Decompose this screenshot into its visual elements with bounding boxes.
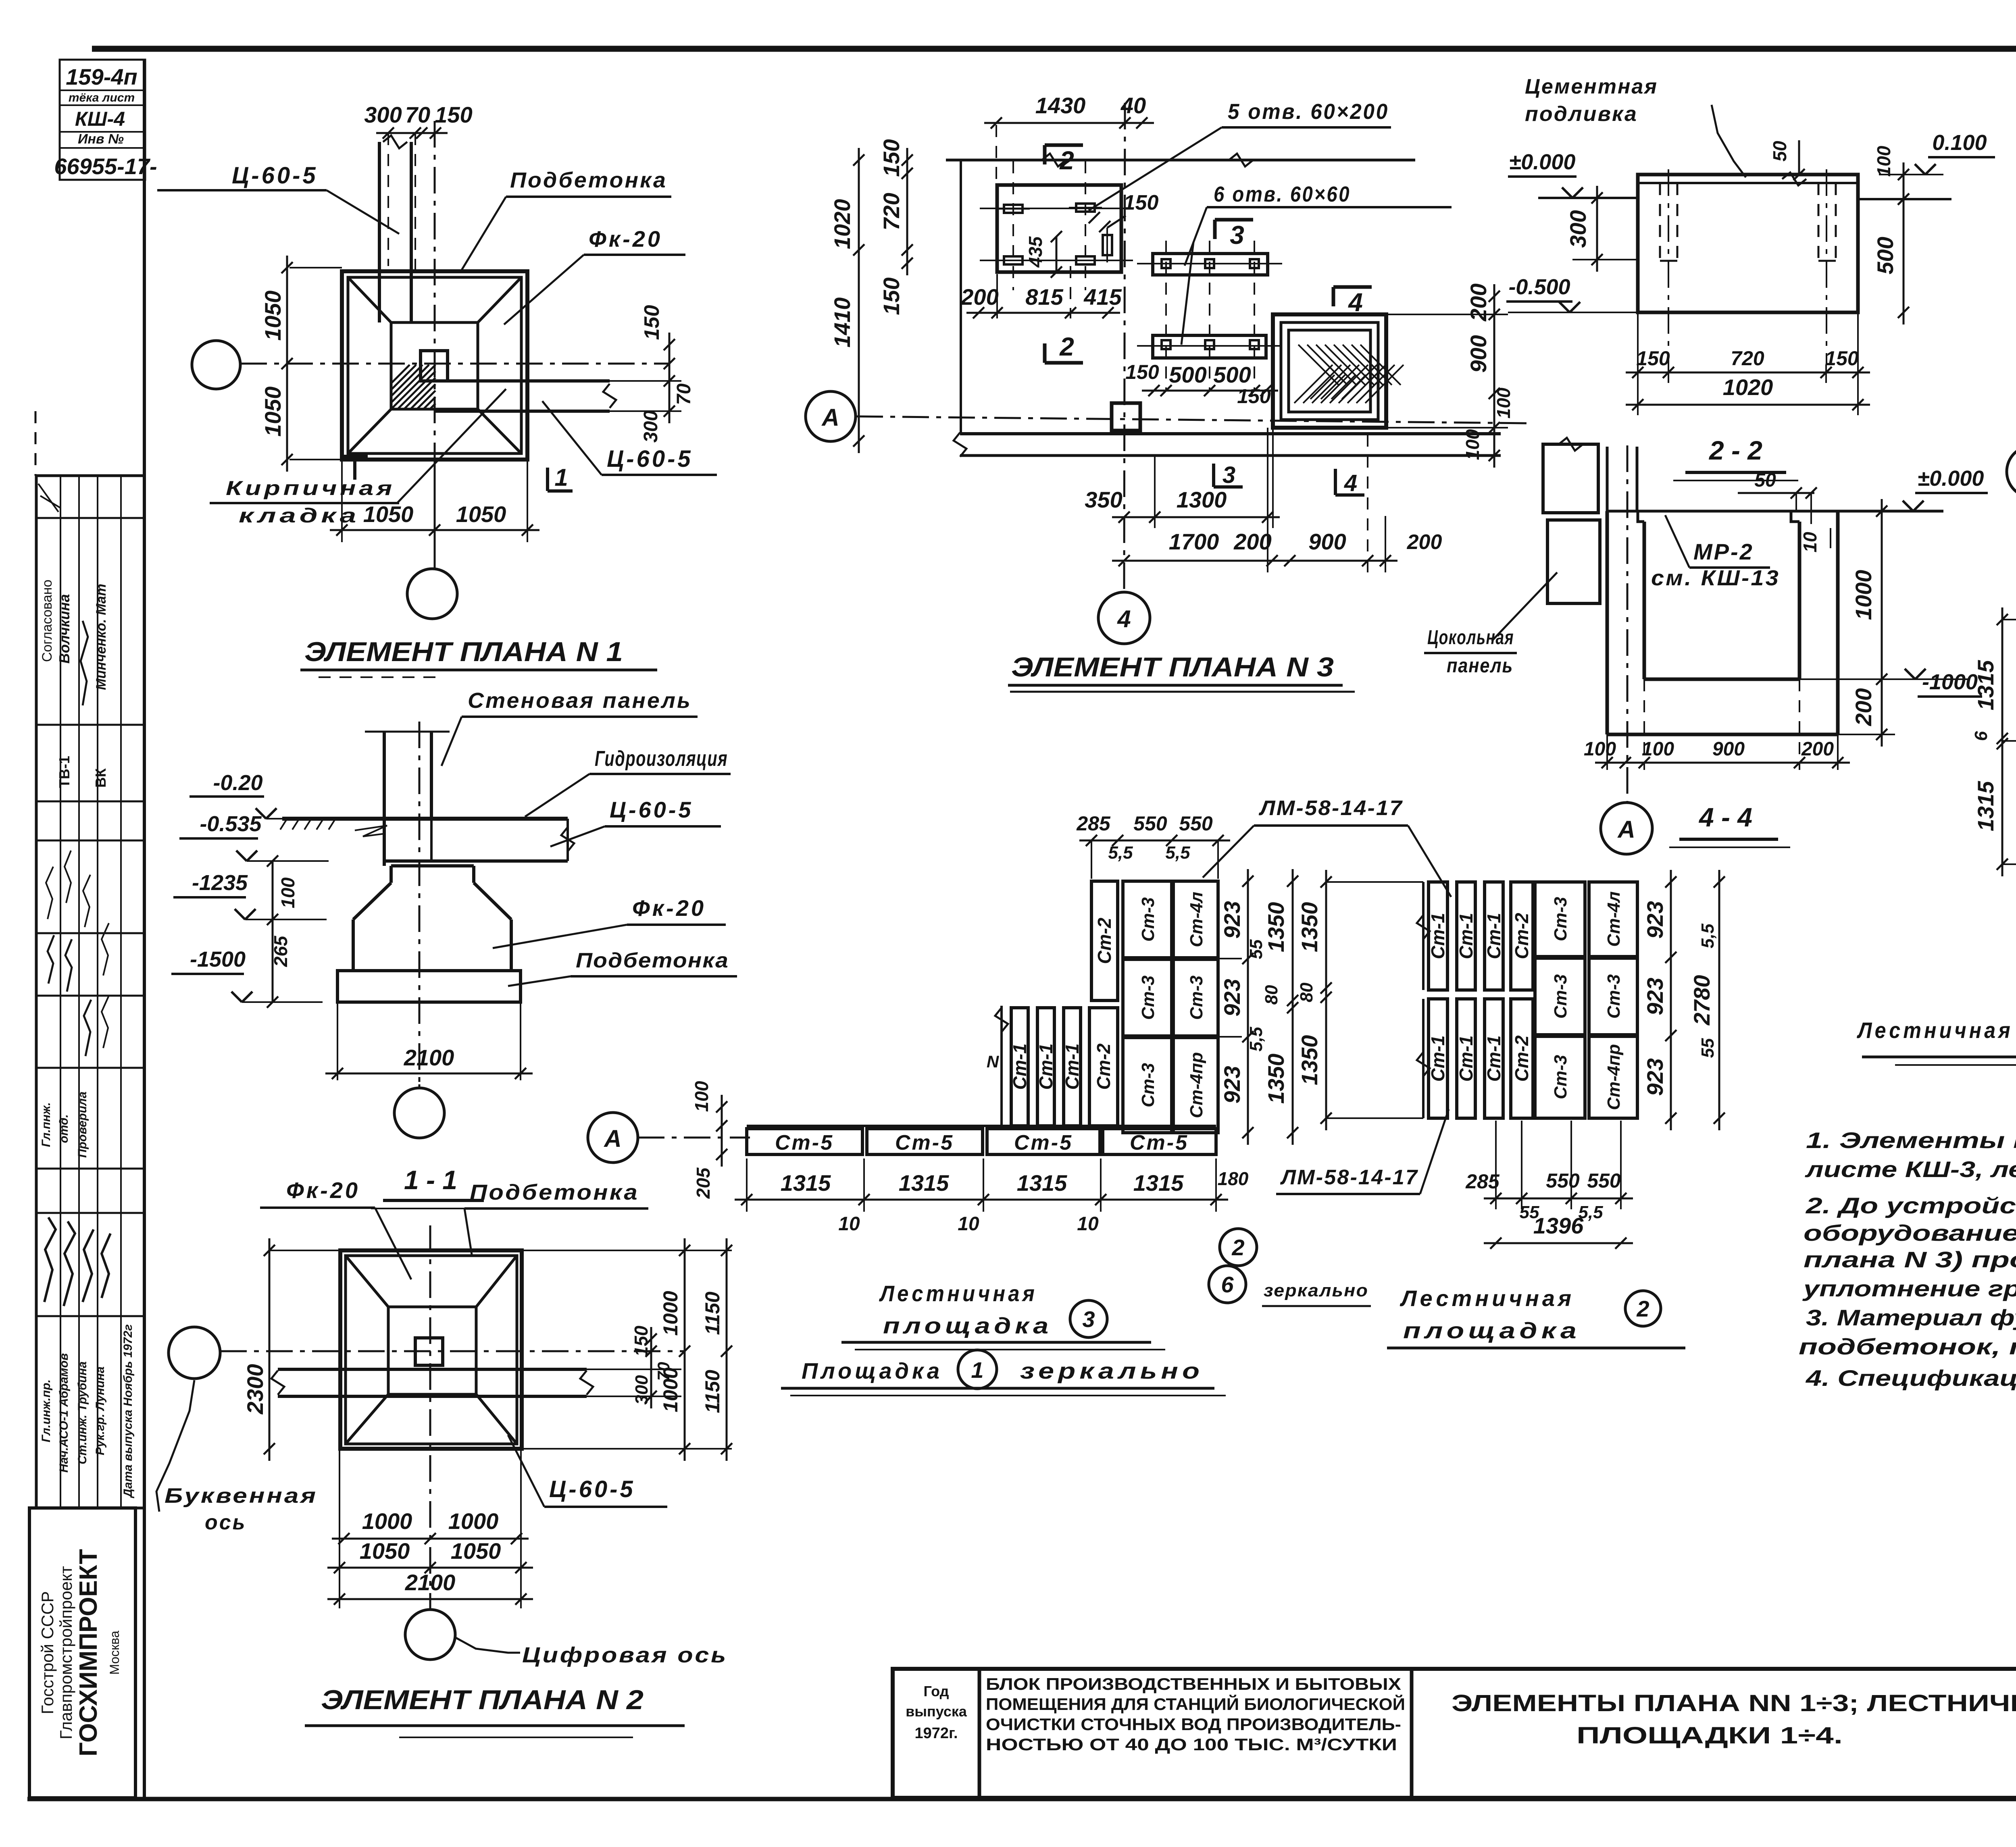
svg-text:площадка: площадка: [883, 1313, 1052, 1338]
plan element 3 wall top edge line: [946, 159, 1415, 162]
svg-text:Ст-5: Ст-5: [1130, 1131, 1189, 1154]
plan element 2 bottom dims 1000 1000: [332, 1538, 529, 1540]
svg-text:900: 900: [1712, 738, 1745, 760]
plan element 2 horizontal axis line: [220, 1350, 685, 1352]
section 4-4 wall panel lower (цокольная панель): [1547, 520, 1600, 603]
lower bar plate bolts: [1162, 340, 1170, 349]
svg-text:2780: 2780: [1689, 975, 1714, 1026]
svg-text:±0.000: ±0.000: [1509, 150, 1576, 174]
plan element 2 bottom dim 2100: [327, 1598, 533, 1600]
section 2-2 left slot: [1659, 183, 1661, 261]
inventory stamp box: [60, 60, 145, 180]
svg-text:100: 100: [1642, 738, 1674, 760]
svg-text:205: 205: [693, 1167, 714, 1199]
svg-text:N: N: [987, 1052, 1000, 1071]
section mark 2 top: [1045, 144, 1083, 147]
svg-text:-0.535: -0.535: [200, 812, 262, 836]
section mark 1 right: [546, 468, 549, 491]
svg-text:Подбетонка: Подбетонка: [510, 168, 667, 192]
svg-text:Буквенная: Буквенная: [165, 1484, 318, 1508]
plan element 3 lower wall strip: [960, 432, 1501, 435]
svg-text:1000: 1000: [659, 1291, 682, 1335]
svg-text:Минченко. Мат: Минченко. Мат: [94, 584, 109, 690]
svg-text:Ст-5: Ст-5: [1014, 1131, 1073, 1154]
svg-text:1 - 1: 1 - 1: [404, 1165, 457, 1195]
svg-text:1972г.: 1972г.: [914, 1725, 958, 1742]
plan element 2 right dims 1150 1000 150 70 300: [522, 1250, 732, 1251]
landing 4 left dim chain 1315 6 1315: [2002, 619, 2016, 620]
plan element 2 inner square: [346, 1256, 517, 1444]
svg-text:1350: 1350: [1263, 1054, 1289, 1104]
plan element 3 small square on axis: [1112, 403, 1140, 431]
svg-text:150: 150: [879, 139, 904, 177]
svg-text:4 - 4: 4 - 4: [1698, 802, 1752, 832]
plan element 3 left wall vertical: [960, 160, 962, 434]
svg-text:50: 50: [1754, 470, 1776, 491]
svg-text:159-4п: 159-4п: [66, 64, 137, 89]
landing 3 left dims 100 205: [722, 1107, 747, 1107]
section 1-1 podbetonka slab: [337, 971, 521, 1002]
svg-text:ЭЛЕМЕНТ ПЛАНА N 2: ЭЛЕМЕНТ ПЛАНА N 2: [321, 1685, 644, 1715]
svg-text:4. Спецификацию на проступ: 4. Спецификацию на проступи см. лист КШ-…: [1806, 1365, 2016, 1391]
svg-text:Согласовано: Согласовано: [40, 580, 55, 662]
svg-text:1315: 1315: [1133, 1170, 1184, 1196]
svg-text:1050: 1050: [451, 1538, 501, 1564]
svg-text:ГОСХИМПРОЕКТ: ГОСХИМПРОЕКТ: [75, 1549, 102, 1757]
svg-text:Госстрой СССР: Госстрой СССР: [38, 1591, 57, 1714]
publisher box ГОСХИМПРОЕКТ: [29, 1508, 135, 1798]
plan element 2 pyramid diagonals: [346, 1256, 388, 1307]
svg-text:зеркально: зеркально: [1264, 1281, 1368, 1300]
svg-text:1050: 1050: [260, 387, 285, 437]
section 4-4 pit walls: [1606, 511, 1609, 734]
axis A circle left of plan 1: [192, 341, 240, 389]
svg-text:БЛОК ПРОИЗВОДСТВЕННЫХ И БЫТ: БЛОК ПРОИЗВОДСТВЕННЫХ И БЫТОВЫХ: [986, 1674, 1401, 1693]
svg-text:плана N 3) произвести: плана N 3) произвести послойное: [1804, 1247, 2016, 1272]
svg-text:1: 1: [971, 1357, 983, 1383]
svg-text:1: 1: [554, 464, 568, 491]
svg-text:Ст-4пр: Ст-4пр: [1604, 1044, 1624, 1110]
left margin signature table: [35, 411, 37, 476]
svg-text:Ст-3: Ст-3: [1138, 975, 1158, 1020]
plan element 1 pyramid diagonals: [348, 277, 391, 322]
svg-text:Ц-60-5: Ц-60-5: [232, 162, 318, 189]
svg-text:4: 4: [1344, 470, 1357, 496]
landing 2 right dim chain 923: [1670, 870, 1672, 1130]
section 1-1 ground hatch: [280, 819, 287, 830]
svg-text:1050: 1050: [456, 501, 506, 527]
svg-text:2: 2: [1059, 146, 1074, 175]
svg-text:Лестничная: Лестничная: [1856, 1017, 2013, 1043]
plan element 1 column strip (Ц-60-5 vertical): [378, 142, 381, 322]
section mark 3 bottom: [1212, 464, 1215, 487]
section 1-1 axis circle bottom: [394, 1088, 444, 1138]
svg-text:180: 180: [1218, 1168, 1249, 1189]
sheet frame bottom border: [27, 1797, 2016, 1801]
plan element 2 letter axis circle: [169, 1327, 220, 1379]
svg-text:Ст-1: Ст-1: [1427, 1035, 1448, 1082]
svg-text:200: 200: [960, 284, 998, 310]
plan element 2 bottom axis circle: [405, 1610, 455, 1660]
section 4-4 centerline: [1627, 445, 1629, 801]
svg-text:Ст-1: Ст-1: [1062, 1043, 1083, 1090]
svg-text:Ст-1: Ст-1: [1009, 1043, 1030, 1090]
plan element 3 dim 200 815 415: [966, 312, 1120, 314]
svg-text:1050: 1050: [260, 291, 285, 341]
svg-text:1410: 1410: [829, 297, 855, 348]
svg-text:А: А: [1617, 816, 1635, 843]
svg-text:900: 900: [1466, 335, 1491, 372]
svg-text:1000: 1000: [659, 1367, 682, 1412]
svg-text:350: 350: [1085, 487, 1122, 512]
plan element 3 bottom axis circle 4: [1098, 592, 1150, 644]
svg-text:Год: Год: [924, 1683, 949, 1699]
svg-text:150: 150: [879, 277, 904, 315]
landing 2 bottom dim 1396: [1484, 1242, 1633, 1244]
svg-text:кладка: кладка: [239, 504, 360, 527]
svg-text:1350: 1350: [1297, 1035, 1322, 1086]
svg-text:ВК: ВК: [92, 768, 109, 788]
svg-text:150: 150: [1237, 385, 1271, 408]
svg-text:10: 10: [1077, 1213, 1099, 1235]
landing 3 axis dash line: [638, 1137, 750, 1139]
svg-text:Ст-1: Ст-1: [1427, 913, 1448, 959]
svg-text:Ст-3: Ст-3: [1551, 974, 1570, 1019]
svg-text:Ст-1: Ст-1: [1035, 1043, 1056, 1090]
svg-text:Цементная: Цементная: [1525, 75, 1658, 98]
left margin border line: [143, 60, 146, 1799]
landing 2 right block grid: [1535, 882, 1585, 957]
table big signatures: [44, 1217, 56, 1302]
svg-text:923: 923: [1642, 901, 1668, 938]
table scribbles upper: [48, 935, 54, 984]
svg-text:3: 3: [1230, 220, 1244, 250]
svg-text:40: 40: [1120, 93, 1146, 118]
svg-text:Главпромстройпроект: Главпромстройпроект: [56, 1566, 75, 1739]
circle marker 2: [1220, 1229, 1257, 1266]
svg-text:Ст-2: Ст-2: [1511, 1035, 1532, 1082]
svg-text:1350: 1350: [1263, 902, 1289, 953]
landing 2 left dim chain 1350 80 1350: [1326, 881, 1423, 883]
landing 3 upper block grid: [1123, 881, 1172, 958]
plan element 1 top dimension 300 70 150: [387, 133, 389, 266]
svg-text:листе КШ-3, лестничные: листе КШ-3, лестничные площадки - КШ-7: [1804, 1156, 2016, 1182]
svg-text:10: 10: [838, 1213, 860, 1235]
svg-text:3: 3: [1223, 462, 1235, 488]
svg-text:200: 200: [1407, 530, 1442, 554]
svg-text:1. Элементы планов замар: 1. Элементы планов замаркированы на: [1806, 1127, 2016, 1153]
svg-text:2300: 2300: [242, 1364, 268, 1415]
svg-text:1315: 1315: [899, 1170, 949, 1196]
svg-text:Фк-20: Фк-20: [589, 226, 662, 252]
svg-text:100: 100: [1873, 146, 1894, 177]
svg-text:4: 4: [1347, 288, 1363, 317]
svg-text:5,5: 5,5: [1108, 843, 1133, 863]
plan element 1 pyramid plateau: [391, 322, 478, 409]
svg-text:415: 415: [1083, 284, 1122, 310]
svg-text:Гл.инж.пр.: Гл.инж.пр.: [40, 1379, 53, 1442]
axis A circle landing 3: [588, 1113, 638, 1163]
svg-text:±0.000: ±0.000: [1918, 466, 1984, 491]
section mark 4 top: [1333, 285, 1372, 289]
svg-text:100: 100: [1584, 738, 1616, 760]
dimension 300 left 2-2: [1596, 186, 1598, 272]
svg-text:выпуска: выпуска: [906, 1703, 967, 1720]
landing 3 upper block Ст-2 column: [1091, 881, 1118, 1000]
section 4-4 ground line: [1607, 510, 1943, 513]
section 2-2 bottom dim 1020: [1626, 404, 1870, 406]
landing 3 top dims 285 550 550: [1091, 840, 1092, 879]
svg-text:Подбетонка: Подбетонка: [470, 1180, 639, 1204]
svg-text:3. Материал фундаментов по: 3. Материал фундаментов под оборудование…: [1806, 1305, 2016, 1330]
plan element 1 outer square: [342, 271, 527, 460]
svg-text:4: 4: [1117, 605, 1131, 632]
svg-text:285: 285: [1465, 1170, 1500, 1193]
plan element 3 dim 1700 200 900 200: [1112, 560, 1397, 562]
svg-text:Ст-3: Ст-3: [1138, 1063, 1158, 1107]
svg-text:Ст-3: Ст-3: [1551, 1055, 1570, 1099]
section 1-1 wall centerline: [419, 722, 421, 1084]
svg-text:2: 2: [1636, 1296, 1649, 1321]
sheet frame top border: [92, 46, 2016, 52]
svg-text:1315: 1315: [1973, 660, 1998, 710]
svg-text:100: 100: [277, 877, 298, 908]
svg-text:-0.500: -0.500: [1508, 275, 1570, 299]
svg-text:900: 900: [1308, 529, 1346, 554]
svg-text:1396: 1396: [1533, 1213, 1584, 1238]
svg-text:923: 923: [1642, 1058, 1668, 1096]
svg-text:Дата выпуска Ноябрь 1972г: Дата выпуска Ноябрь 1972г: [121, 1324, 135, 1499]
svg-text:2: 2: [1231, 1235, 1244, 1260]
svg-text:1700: 1700: [1169, 529, 1219, 554]
svg-text:150: 150: [640, 305, 664, 340]
plate vertical dashed bolt axes: [1012, 161, 1014, 290]
svg-text:Ст-4л: Ст-4л: [1604, 891, 1624, 946]
plan element 1 horizontal strip (Ц-60-5 to right): [448, 379, 610, 383]
svg-text:2: 2: [1059, 332, 1074, 361]
svg-text:А: А: [603, 1125, 621, 1152]
svg-text:Ст-3: Ст-3: [1187, 975, 1206, 1020]
svg-text:285: 285: [1076, 812, 1111, 835]
svg-text:80: 80: [1297, 982, 1316, 1002]
svg-text:66955-17-: 66955-17-: [54, 154, 157, 179]
plan element 1 left dimension 1050 1050: [289, 267, 342, 268]
dimension 1000 200 right 4-4: [1799, 678, 1895, 680]
section 1-1 footing Фк-20: [391, 864, 474, 867]
section 1-1 hydroisolation line: [282, 817, 568, 821]
svg-text:5,5: 5,5: [1246, 1027, 1266, 1052]
plan element 2 vertical centerline: [429, 1225, 431, 1610]
svg-text:А: А: [821, 404, 839, 431]
svg-text:1315: 1315: [1017, 1170, 1067, 1196]
section 1-1 bottom dimension 2100: [337, 1002, 338, 1080]
svg-text:3: 3: [1082, 1306, 1095, 1332]
plan element 1 inner square: [348, 277, 521, 453]
circle marker 6 with зеркально: [1209, 1266, 1246, 1303]
svg-text:300: 300: [1565, 210, 1591, 248]
section 4-4 bottom dims 100 100 900 200: [1606, 734, 1608, 770]
landing 3 bottom dims 1315 x4: [746, 1159, 748, 1212]
svg-text:0.100: 0.100: [1932, 131, 1987, 155]
svg-text:Ст.инж. Трубина: Ст.инж. Трубина: [76, 1361, 89, 1464]
svg-text:МР-2: МР-2: [1693, 539, 1754, 564]
plan element 1 hatched brick corner: [391, 365, 435, 409]
plan element 2 pyramid plateau: [388, 1307, 476, 1394]
svg-text:1150: 1150: [701, 1370, 724, 1413]
plan element 2 outer square: [340, 1250, 522, 1449]
svg-text:Ст-2: Ст-2: [1511, 913, 1532, 959]
svg-text:Ц-60-5: Ц-60-5: [607, 446, 693, 472]
pit plan crosshatch: [1294, 365, 1333, 403]
svg-text:1020: 1020: [1723, 374, 1773, 400]
landing 3 right dim chain 923: [1218, 958, 1242, 959]
plate horizontal centerlines: [980, 208, 1133, 209]
svg-text:Ст-3: Ст-3: [1551, 897, 1570, 941]
svg-text:1000: 1000: [362, 1508, 412, 1534]
svg-text:ЛМ-58-14-17: ЛМ-58-14-17: [1280, 1166, 1418, 1189]
svg-text:оборудование и приямка: оборудование и приямка (см. элемент: [1804, 1220, 2016, 1246]
svg-text:подливка: подливка: [1525, 102, 1638, 126]
svg-text:2100: 2100: [404, 1045, 454, 1070]
plan element 3 right dim chain 200 900 100: [1386, 314, 1508, 315]
axis A dash-dot line plan 1: [240, 363, 669, 365]
svg-text:6: 6: [1221, 1272, 1234, 1297]
svg-text:100: 100: [1462, 429, 1483, 460]
plan element 3 pit plan (4-4) nested squares: [1273, 314, 1386, 428]
svg-text:1315: 1315: [1973, 781, 1998, 831]
dimension 50 section 4-4: [1738, 492, 1814, 494]
title block outer box: [893, 1669, 2016, 1798]
plan element 1 bottom axis circle: [407, 569, 457, 619]
svg-text:720: 720: [1731, 347, 1764, 370]
svg-text:550: 550: [1546, 1169, 1580, 1192]
svg-text:200: 200: [1233, 529, 1271, 554]
section 2-2 ground lines: [1538, 197, 1638, 199]
svg-text:265: 265: [270, 935, 291, 967]
axis A circle plan 3: [806, 391, 856, 441]
svg-text:ось: ось: [205, 1511, 247, 1534]
svg-text:Лестничная: Лестничная: [1400, 1285, 1574, 1311]
svg-text:НОСТЬЮ ОТ 40 ДО 100 ТЫС. М³/: НОСТЬЮ ОТ 40 ДО 100 ТЫС. М³/СУТКИ: [986, 1735, 1397, 1754]
plan element 1 vertical centerline: [434, 121, 436, 569]
svg-text:-1500: -1500: [190, 947, 246, 971]
svg-text:Рук.гр. Лунина: Рук.гр. Лунина: [94, 1367, 107, 1455]
svg-text:Ст-4л: Ст-4л: [1187, 892, 1206, 947]
svg-text:Ст-2: Ст-2: [1093, 1043, 1114, 1090]
svg-text:150: 150: [1636, 347, 1670, 370]
svg-text:2 - 2: 2 - 2: [1708, 435, 1762, 465]
landing 2 bottom dims 285 550 550: [1495, 1121, 1497, 1209]
svg-text:923: 923: [1642, 978, 1668, 1015]
plan element 3 left dim chain 150 720 150: [906, 148, 908, 275]
svg-text:панель: панель: [1447, 654, 1513, 677]
landing 2 left slab group: [1422, 882, 1425, 990]
svg-text:1020: 1020: [829, 199, 855, 250]
plan element 2 column small square: [415, 1338, 443, 1365]
dimension 500 right 2-2: [1903, 187, 1905, 324]
svg-text:300: 300: [632, 1375, 652, 1405]
section 2-2 right slot: [1818, 183, 1820, 261]
svg-text:Фк-20: Фк-20: [632, 895, 706, 921]
svg-text:150: 150: [1825, 347, 1859, 370]
svg-text:1050: 1050: [363, 501, 414, 527]
svg-text:70: 70: [673, 383, 695, 405]
plan element 2 left dimension 2300: [269, 1250, 340, 1251]
svg-text:Ст-1: Ст-1: [1483, 1035, 1504, 1082]
axis A circle section 4-4: [1601, 803, 1652, 854]
svg-text:подбетонок, приямка — бет: подбетонок, приямка — бетон М-100.: [1799, 1334, 2016, 1359]
svg-text:см. КШ-13: см. КШ-13: [1651, 566, 1780, 590]
plate 5-hole bolt slots: [1004, 205, 1023, 213]
svg-text:Ст-3: Ст-3: [1138, 897, 1158, 942]
svg-text:Ст-5: Ст-5: [775, 1131, 834, 1154]
svg-text:Проверила: Проверила: [76, 1092, 89, 1158]
svg-text:500: 500: [1213, 362, 1251, 387]
svg-text:Гл.пнж.: Гл.пнж.: [40, 1102, 53, 1147]
svg-text:Фк-20: Фк-20: [286, 1177, 360, 1203]
svg-text:Лестничная: Лестничная: [879, 1281, 1037, 1306]
plan element 3 lower bar plate: [1153, 335, 1266, 358]
section 2-2 cement topping line: [1638, 182, 1858, 184]
svg-text:-1000: -1000: [1922, 670, 1978, 694]
svg-text:площадка: площадка: [1403, 1318, 1581, 1343]
dimension 100 right 2-2: [1903, 162, 1905, 211]
svg-text:1000: 1000: [1851, 570, 1876, 620]
svg-text:Цокольная: Цокольная: [1427, 626, 1514, 649]
svg-text:Ст-1: Ст-1: [1456, 913, 1477, 959]
plan element 3 dim 350 1300: [1112, 516, 1280, 518]
section 4-4 pit top notches: [1638, 511, 1644, 522]
landing 3 right dim chain 1350 1350: [1292, 869, 1294, 1145]
svg-text:1300: 1300: [1177, 487, 1227, 512]
svg-text:Ст-1: Ст-1: [1456, 1035, 1477, 1082]
section 4-4 wall panel upper: [1543, 444, 1598, 513]
plan element 3 top dimension 1430 40: [996, 125, 997, 181]
svg-text:923: 923: [1219, 901, 1245, 938]
plan element 3 anchor plate 5 holes: [997, 185, 1121, 272]
svg-text:5,5: 5,5: [1165, 843, 1190, 863]
svg-text:550: 550: [1587, 1169, 1621, 1192]
svg-text:1050: 1050: [360, 1538, 410, 1564]
plan element 3 dim 150 500 500 150: [1142, 390, 1278, 392]
svg-text:150: 150: [1125, 361, 1159, 383]
svg-text:923: 923: [1219, 1066, 1245, 1103]
section 1-1 block Ц-60-5: [384, 859, 568, 863]
svg-text:ПОМЕЩЕНИЯ ДЛЯ СТАНЦИЙ БИОЛОГИЧ: ПОМЕЩЕНИЯ ДЛЯ СТАНЦИЙ БИОЛОГИЧЕСКОЙ: [986, 1694, 1405, 1714]
svg-text:6 отв. 60×60: 6 отв. 60×60: [1214, 182, 1351, 206]
section mark 2 bottom: [1045, 361, 1083, 365]
svg-text:150: 150: [435, 102, 472, 127]
svg-text:50: 50: [1769, 141, 1790, 162]
section 4-4 foundation wall above ground: [1606, 447, 1609, 511]
plan element 3 left dim chain 1020 1410: [858, 148, 860, 453]
svg-text:ПЛОЩАДКИ 1÷4.: ПЛОЩАДКИ 1÷4.: [1577, 1722, 1843, 1749]
dimension 50 topping 2-2: [1798, 140, 1800, 173]
svg-text:Подбетонка: Подбетонка: [576, 949, 729, 972]
svg-text:300: 300: [640, 410, 662, 443]
upper bar plate bolts: [1162, 259, 1170, 268]
svg-text:80: 80: [1262, 985, 1281, 1005]
plan element 3 horizontal axis A: [856, 416, 1528, 423]
svg-text:2. До устройства фундам: 2. До устройства фундаментов под: [1806, 1193, 2016, 1218]
svg-text:2100: 2100: [405, 1570, 456, 1595]
dimension 150 at plate slot: [1089, 213, 1113, 229]
svg-text:815: 815: [1025, 284, 1063, 310]
svg-text:зеркально: зеркально: [1020, 1358, 1204, 1383]
svg-text:ЭЛЕМЕНТ ПЛАНА N 1: ЭЛЕМЕНТ ПЛАНА N 1: [304, 636, 623, 667]
svg-text:500: 500: [1169, 362, 1206, 387]
landing 3 vertical slab group: [1000, 1006, 1003, 1126]
